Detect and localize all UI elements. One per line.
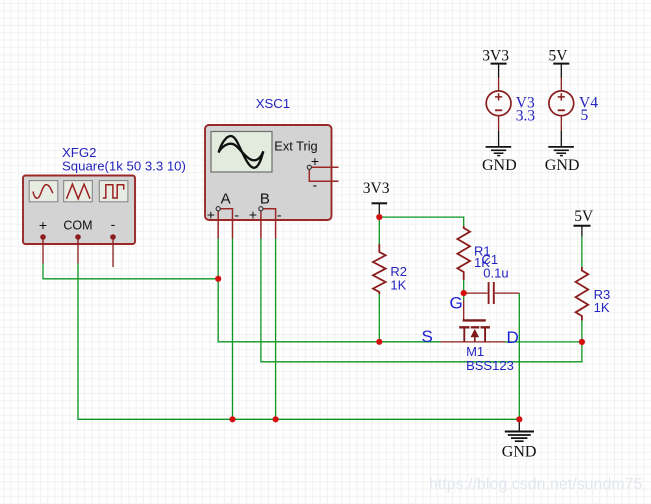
junction node G: [461, 290, 467, 296]
svg-text:3V3: 3V3: [363, 180, 390, 197]
svg-text:XSC1: XSC1: [256, 96, 290, 111]
junction node D at R3: [579, 339, 585, 345]
resistor R1: [457, 226, 470, 280]
wire XFG+ to node A: [43, 264, 218, 279]
wire R2 bottom to S row: [378, 294, 380, 342]
svg-text:1K: 1K: [594, 300, 610, 315]
svg-text:Square(1k 50 3.3 10): Square(1k 50 3.3 10): [62, 159, 186, 174]
power symbol 5V right: [574, 226, 591, 237]
svg-text:GND: GND: [502, 443, 537, 460]
XFG2 triangle icon: [64, 181, 93, 202]
svg-text:G: G: [450, 293, 463, 312]
capacitor C1: [464, 282, 520, 304]
XSC1 screen with sine: [211, 132, 272, 173]
junction ground rail B-: [273, 416, 279, 422]
junction node S at R2: [376, 339, 382, 345]
svg-text:0.1u: 0.1u: [483, 266, 508, 281]
channel B pigtail wires: [261, 209, 276, 239]
XFG2 square icon: [99, 181, 128, 202]
svg-text:5V: 5V: [549, 48, 569, 65]
svg-text:3.3: 3.3: [516, 107, 536, 124]
XFG2 terminal - stub wire: [112, 239, 114, 267]
channel A pigtail wires: [218, 209, 232, 239]
ground lead bottom: [518, 419, 520, 431]
wire 3V3 rail to R2 and R1: [379, 217, 463, 244]
svg-text:BSS123: BSS123: [466, 358, 514, 373]
svg-text:S: S: [422, 327, 433, 346]
wire scope A+ down to S row: [218, 239, 440, 342]
wire scope B+ to node D: [261, 239, 582, 362]
XFG2 terminal COM: [75, 234, 81, 240]
wire scope B- to ground rail: [275, 239, 277, 420]
svg-text:A: A: [221, 191, 231, 208]
junction ground rail A-: [229, 416, 235, 422]
svg-text:GND: GND: [545, 157, 580, 174]
svg-text:-: -: [234, 207, 239, 223]
svg-text:Ext Trig: Ext Trig: [274, 138, 317, 153]
svg-text:5V: 5V: [574, 208, 594, 225]
mosfet M1: [459, 320, 490, 342]
wire D row: [505, 341, 582, 343]
XFG2 terminal + lead wire: [42, 239, 44, 264]
junction node A: [215, 276, 221, 282]
svg-text:-: -: [111, 216, 116, 232]
channel B terminal circle: [259, 207, 263, 211]
mosfet M1 gate wire: [463, 300, 465, 320]
voltage source V4: [549, 78, 574, 132]
XFG2 terminal COM lead wire: [77, 239, 79, 264]
XFG2 terminal -: [110, 234, 116, 240]
svg-text:M1: M1: [466, 344, 484, 359]
svg-text:GND: GND: [482, 157, 517, 174]
ground below V3: [486, 147, 512, 156]
junction ground node: [516, 416, 522, 422]
resistor R2: [373, 244, 386, 294]
power symbol 3V3 above V3: [491, 64, 507, 78]
svg-text:-: -: [277, 207, 282, 223]
power symbol 3V3: [372, 203, 388, 217]
channel A terminal circle: [216, 207, 220, 211]
wire scope A- to ground rail: [232, 239, 234, 420]
XFG2 sine icon: [29, 181, 58, 202]
svg-text:+: +: [249, 207, 257, 223]
function generator XFG2 body: [23, 176, 135, 245]
svg-text:3V3: 3V3: [482, 48, 509, 65]
wire 5V to R3 top: [581, 237, 583, 268]
wire XFG COM to ground rail: [78, 264, 519, 420]
junction node 3V3: [376, 214, 382, 220]
Ext Trig terminal circle: [307, 165, 311, 169]
wire C1 right to ground rail: [518, 293, 520, 419]
svg-text:5: 5: [581, 107, 589, 124]
resistor R3: [576, 267, 589, 321]
wire R3 bottom to node D: [581, 321, 583, 342]
svg-text:B: B: [260, 191, 270, 208]
svg-text:D: D: [507, 328, 519, 347]
voltage source V3: [486, 78, 511, 132]
svg-text:https://blog.csdn.net/sundm75: https://blog.csdn.net/sundm75: [429, 476, 643, 493]
svg-text:+: +: [39, 217, 47, 233]
ground below V4: [548, 147, 574, 156]
V4 ground lead: [560, 131, 562, 147]
XFG2 terminal +: [40, 234, 46, 240]
svg-text:1K: 1K: [390, 278, 406, 293]
wire R1 bottom to node G: [463, 280, 465, 301]
ground symbol bottom: [505, 432, 534, 442]
Ext Trig terminal pigtails: [309, 167, 338, 181]
V3 ground lead: [498, 131, 500, 147]
svg-text:-: -: [312, 177, 317, 193]
oscilloscope XSC1 body: [205, 125, 332, 220]
svg-text:COM: COM: [63, 219, 92, 233]
svg-text:+: +: [207, 207, 215, 223]
power symbol 5V above V4: [553, 64, 569, 78]
wire mosfet source-drain row (red): [441, 341, 506, 343]
